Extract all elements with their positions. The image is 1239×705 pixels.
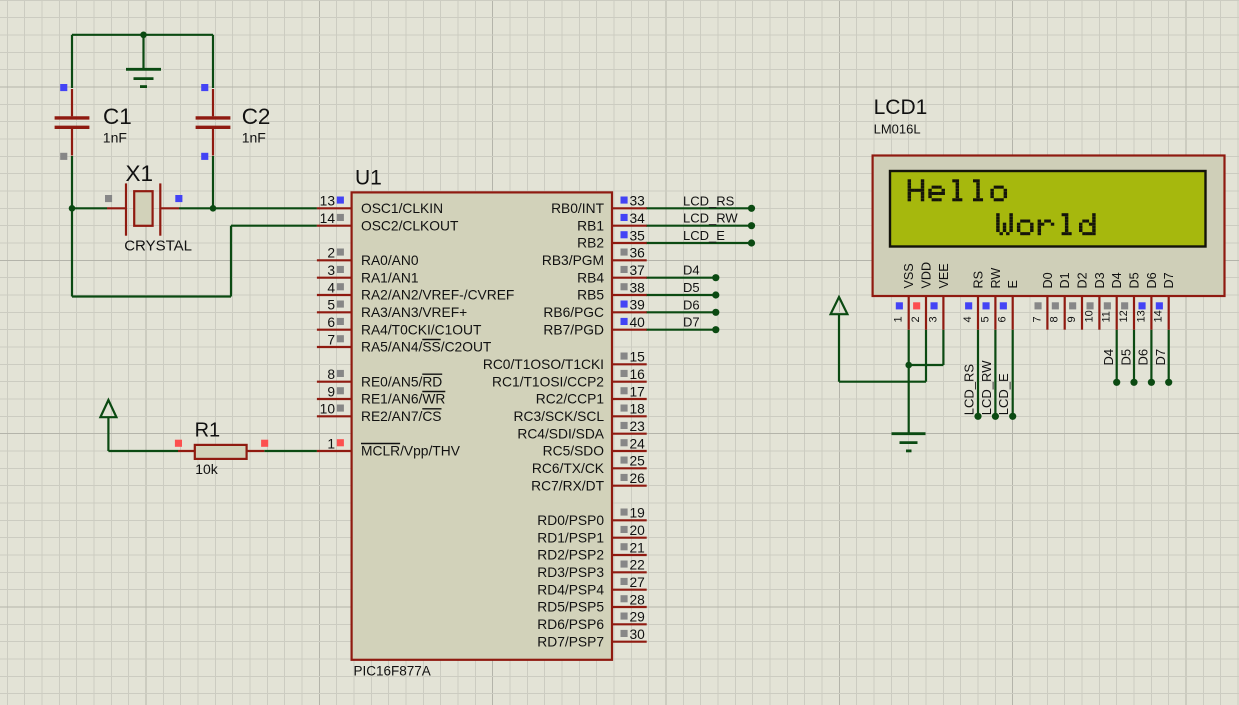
svg-text:RA3/AN3/VREF+: RA3/AN3/VREF+ xyxy=(361,305,467,320)
svg-text:R1: R1 xyxy=(195,420,221,442)
svg-text:RB7/PGD: RB7/PGD xyxy=(543,322,604,337)
svg-text:LCD_RS: LCD_RS xyxy=(962,364,977,416)
svg-text:3: 3 xyxy=(927,316,939,322)
svg-text:RD6/PSP6: RD6/PSP6 xyxy=(537,617,604,632)
svg-text:X1: X1 xyxy=(126,161,154,186)
svg-text:RS: RS xyxy=(972,271,986,289)
svg-text:D7: D7 xyxy=(1153,349,1168,366)
svg-text:15: 15 xyxy=(630,350,646,365)
svg-text:RC7/RX/DT: RC7/RX/DT xyxy=(531,478,604,493)
svg-text:4: 4 xyxy=(327,280,335,295)
svg-text:16: 16 xyxy=(630,367,646,382)
svg-text:34: 34 xyxy=(630,211,646,226)
svg-text:10: 10 xyxy=(1083,310,1095,322)
svg-text:14: 14 xyxy=(320,211,336,226)
svg-text:2: 2 xyxy=(327,246,335,261)
svg-text:RD3/PSP3: RD3/PSP3 xyxy=(537,565,604,580)
svg-text:36: 36 xyxy=(630,246,646,261)
svg-text:D2: D2 xyxy=(1076,272,1090,288)
svg-text:22: 22 xyxy=(630,558,645,573)
svg-text:D6: D6 xyxy=(1136,349,1151,366)
svg-text:D3: D3 xyxy=(1093,272,1107,288)
svg-text:D0: D0 xyxy=(1041,272,1055,288)
svg-text:D5: D5 xyxy=(683,280,700,295)
svg-text:14: 14 xyxy=(1153,310,1165,322)
svg-text:8: 8 xyxy=(327,367,335,382)
svg-text:RB1: RB1 xyxy=(577,218,604,233)
svg-text:10k: 10k xyxy=(195,461,219,477)
svg-text:VEE: VEE xyxy=(937,263,951,288)
svg-text:D1: D1 xyxy=(1058,272,1072,288)
svg-text:U1: U1 xyxy=(355,167,382,190)
svg-text:E: E xyxy=(1006,280,1020,288)
svg-text:9: 9 xyxy=(1066,316,1078,322)
svg-text:12: 12 xyxy=(1118,310,1130,322)
svg-text:D4: D4 xyxy=(1110,272,1124,288)
svg-text:LCD_E: LCD_E xyxy=(683,228,725,243)
svg-text:RD4/PSP4: RD4/PSP4 xyxy=(537,582,604,597)
svg-text:7: 7 xyxy=(1031,316,1043,322)
svg-text:10: 10 xyxy=(320,402,336,417)
svg-text:C1: C1 xyxy=(103,104,132,129)
svg-text:37: 37 xyxy=(630,263,645,278)
svg-text:RC0/T1OSO/T1CKI: RC0/T1OSO/T1CKI xyxy=(483,357,604,372)
svg-text:24: 24 xyxy=(630,436,646,451)
svg-text:LCD_RW: LCD_RW xyxy=(683,211,738,226)
svg-text:1: 1 xyxy=(893,316,905,322)
svg-text:RE1/AN6/WR: RE1/AN6/WR xyxy=(361,392,445,407)
svg-text:40: 40 xyxy=(630,315,646,330)
svg-text:RA5/AN4/SS/C2OUT: RA5/AN4/SS/C2OUT xyxy=(361,340,492,355)
svg-text:D4: D4 xyxy=(1101,349,1116,366)
svg-text:RD7/PSP7: RD7/PSP7 xyxy=(537,634,604,649)
svg-text:RB2: RB2 xyxy=(577,236,604,251)
svg-text:RB6/PGC: RB6/PGC xyxy=(543,305,604,320)
svg-text:RD0/PSP0: RD0/PSP0 xyxy=(537,513,604,528)
svg-text:LCD_RW: LCD_RW xyxy=(979,360,994,415)
svg-text:CRYSTAL: CRYSTAL xyxy=(124,238,192,255)
svg-text:5: 5 xyxy=(979,316,991,322)
svg-text:D5: D5 xyxy=(1118,349,1133,366)
svg-text:RD1/PSP1: RD1/PSP1 xyxy=(537,530,604,545)
svg-text:RD2/PSP2: RD2/PSP2 xyxy=(537,548,604,563)
svg-text:5: 5 xyxy=(327,298,335,313)
svg-text:2: 2 xyxy=(910,316,922,322)
svg-text:8: 8 xyxy=(1049,316,1061,322)
svg-text:VSS: VSS xyxy=(902,263,916,288)
svg-text:LCD1: LCD1 xyxy=(874,96,928,119)
svg-text:LCD_E: LCD_E xyxy=(996,373,1011,415)
svg-text:RB4: RB4 xyxy=(577,270,604,285)
svg-text:LM016L: LM016L xyxy=(874,121,921,136)
svg-text:RB3/PGM: RB3/PGM xyxy=(542,253,604,268)
svg-text:38: 38 xyxy=(630,280,646,295)
svg-text:RC2/CCP1: RC2/CCP1 xyxy=(536,392,604,407)
svg-text:RE2/AN7/CS: RE2/AN7/CS xyxy=(361,409,442,424)
svg-text:17: 17 xyxy=(630,384,645,399)
svg-text:D7: D7 xyxy=(683,315,700,330)
svg-text:23: 23 xyxy=(630,419,646,434)
svg-text:D5: D5 xyxy=(1128,272,1142,288)
svg-text:25: 25 xyxy=(630,454,646,469)
svg-text:RB0/INT: RB0/INT xyxy=(551,201,604,216)
svg-text:PIC16F877A: PIC16F877A xyxy=(354,664,431,679)
svg-text:D6: D6 xyxy=(1145,272,1159,288)
svg-text:11: 11 xyxy=(1101,311,1113,322)
svg-text:RW: RW xyxy=(989,268,1003,289)
svg-text:RC1/T1OSI/CCP2: RC1/T1OSI/CCP2 xyxy=(492,374,604,389)
svg-text:13: 13 xyxy=(320,194,336,209)
svg-text:RC5/SDO: RC5/SDO xyxy=(543,444,605,459)
svg-text:28: 28 xyxy=(630,592,646,607)
svg-text:30: 30 xyxy=(630,627,646,642)
svg-text:LCD_RS: LCD_RS xyxy=(683,193,735,208)
svg-text:OSC2/CLKOUT: OSC2/CLKOUT xyxy=(361,218,459,233)
svg-text:19: 19 xyxy=(630,506,646,521)
svg-text:20: 20 xyxy=(630,523,646,538)
svg-text:39: 39 xyxy=(630,298,646,313)
svg-text:4: 4 xyxy=(962,316,974,322)
svg-text:D7: D7 xyxy=(1162,272,1176,288)
svg-text:OSC1/CLKIN: OSC1/CLKIN xyxy=(361,201,443,216)
svg-text:RA4/T0CKI/C1OUT: RA4/T0CKI/C1OUT xyxy=(361,322,482,337)
svg-text:D4: D4 xyxy=(683,263,700,278)
svg-text:C2: C2 xyxy=(242,104,271,129)
svg-text:RC3/SCK/SCL: RC3/SCK/SCL xyxy=(514,409,605,424)
svg-text:9: 9 xyxy=(327,384,335,399)
svg-text:1nF: 1nF xyxy=(103,129,127,145)
svg-text:RE0/AN5/RD: RE0/AN5/RD xyxy=(361,374,442,389)
svg-text:1: 1 xyxy=(327,436,335,451)
svg-text:6: 6 xyxy=(327,315,335,330)
svg-text:7: 7 xyxy=(327,332,335,347)
svg-text:MCLR/Vpp/THV: MCLR/Vpp/THV xyxy=(361,444,461,459)
svg-text:6: 6 xyxy=(997,316,1009,322)
svg-text:1nF: 1nF xyxy=(242,129,266,145)
svg-text:3: 3 xyxy=(327,263,335,278)
svg-text:RB5: RB5 xyxy=(577,288,604,303)
svg-text:29: 29 xyxy=(630,610,646,625)
svg-text:13: 13 xyxy=(1135,310,1147,322)
svg-text:VDD: VDD xyxy=(920,262,934,289)
svg-text:26: 26 xyxy=(630,471,646,486)
svg-text:18: 18 xyxy=(630,402,646,417)
svg-text:RA1/AN1: RA1/AN1 xyxy=(361,270,419,285)
svg-text:35: 35 xyxy=(630,228,646,243)
svg-text:RA2/AN2/VREF-/CVREF: RA2/AN2/VREF-/CVREF xyxy=(361,288,514,303)
svg-text:D6: D6 xyxy=(683,297,700,312)
svg-text:RA0/AN0: RA0/AN0 xyxy=(361,253,419,268)
svg-text:RD5/PSP5: RD5/PSP5 xyxy=(537,600,604,615)
svg-text:21: 21 xyxy=(630,540,645,555)
svg-text:33: 33 xyxy=(630,194,646,209)
svg-text:RC4/SDI/SDA: RC4/SDI/SDA xyxy=(517,426,604,441)
svg-text:27: 27 xyxy=(630,575,645,590)
svg-text:RC6/TX/CK: RC6/TX/CK xyxy=(532,461,605,476)
